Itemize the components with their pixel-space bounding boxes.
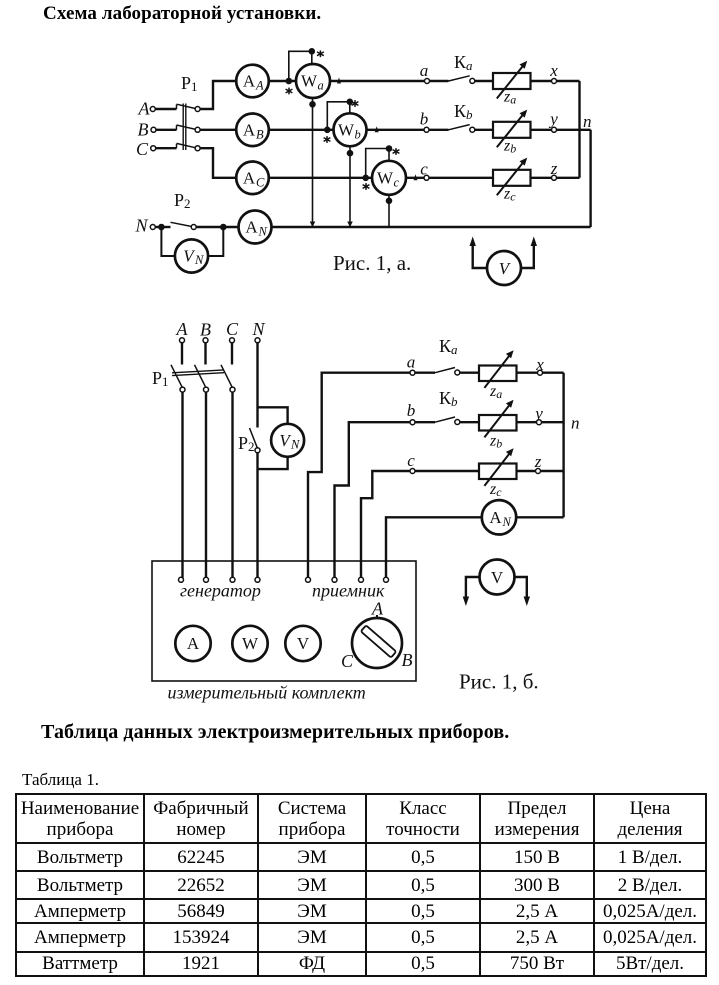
svg-text:B: B <box>200 320 211 340</box>
node C <box>136 139 156 159</box>
node A <box>138 99 156 119</box>
node B <box>138 120 157 140</box>
wire <box>156 147 177 149</box>
junction <box>287 79 291 83</box>
svg-text:b: b <box>355 127 361 141</box>
node b <box>420 110 429 133</box>
node A2 <box>176 319 189 343</box>
wire <box>540 470 563 472</box>
svg-text:zb: zb <box>503 137 516 155</box>
wire <box>415 421 435 423</box>
svg-text:b: b <box>420 110 429 129</box>
svg-text:N: N <box>502 515 512 529</box>
ammeter A_A <box>236 65 269 98</box>
svg-text:А: А <box>489 508 502 527</box>
switch K_a2 <box>435 336 460 375</box>
meter W <box>232 626 267 661</box>
wattmeter W_c voltage lead <box>363 146 400 190</box>
svg-text:C: C <box>341 651 354 671</box>
svg-text:W: W <box>377 168 394 187</box>
svg-text:А: А <box>243 120 256 139</box>
svg-text:Кa: Кa <box>454 52 473 73</box>
junction <box>364 176 368 180</box>
voltmeter V portable <box>470 237 538 286</box>
wire <box>181 392 183 578</box>
wire N feed <box>386 517 482 578</box>
svg-text:C: C <box>226 319 239 339</box>
svg-text:B: B <box>138 120 149 140</box>
switch P1b pole B <box>195 365 209 392</box>
bus x-y-z <box>578 81 580 178</box>
svg-text:генератор: генератор <box>180 581 261 601</box>
svg-text:N: N <box>290 437 300 451</box>
svg-text:W: W <box>301 72 318 91</box>
wire <box>330 80 425 82</box>
meter V <box>285 626 320 661</box>
wire a feed <box>308 373 410 578</box>
svg-text:x: x <box>549 61 558 80</box>
wire c feed <box>361 471 410 578</box>
wire <box>256 343 258 428</box>
wire <box>517 372 538 374</box>
svg-text:А: А <box>187 634 200 653</box>
terminal <box>230 577 235 582</box>
wattmeter W_a <box>296 64 330 98</box>
terminal <box>204 577 209 582</box>
svg-text:zc: zc <box>503 185 516 203</box>
current arrow <box>337 78 341 84</box>
svg-text:C: C <box>256 175 265 189</box>
svg-text:c: c <box>394 175 400 189</box>
rheostat z_a <box>493 61 531 107</box>
svg-text:B: B <box>402 650 413 670</box>
wire <box>475 129 493 131</box>
wire <box>156 129 177 131</box>
wire <box>429 129 449 131</box>
wattmeter W_c <box>372 161 406 195</box>
current arrow <box>414 174 418 180</box>
switch P2 <box>161 190 196 230</box>
svg-text:y: y <box>548 110 558 129</box>
wire <box>200 148 236 178</box>
svg-text:V: V <box>297 634 310 653</box>
svg-text:N: N <box>194 253 204 267</box>
svg-text:Р2: Р2 <box>174 190 191 211</box>
terminal <box>179 577 184 582</box>
switch P2b <box>238 428 260 454</box>
wire <box>531 129 552 131</box>
wire b feed <box>335 422 411 578</box>
wire <box>460 421 479 423</box>
wire <box>517 421 537 423</box>
wire <box>196 226 239 228</box>
wire <box>556 177 579 179</box>
wire <box>231 392 233 578</box>
ammeter A_N <box>239 211 272 244</box>
svg-text:A: A <box>138 99 151 119</box>
voltmeter V portable 2 <box>463 560 530 607</box>
terminal <box>332 577 337 582</box>
wire <box>516 516 564 518</box>
svg-text:c: c <box>407 451 415 470</box>
switch P1b pole C <box>221 365 235 392</box>
node B2 <box>200 320 211 343</box>
wattmeter W_b voltage lead <box>324 100 359 143</box>
svg-text:B: B <box>256 127 264 141</box>
svg-text:za: za <box>489 383 502 401</box>
svg-text:V: V <box>491 568 504 587</box>
ammeter A_N2 <box>482 500 516 534</box>
svg-text:A: A <box>371 599 384 619</box>
bus xyz 2 <box>562 373 564 518</box>
wire to neutral <box>589 130 591 227</box>
svg-text:А: А <box>245 218 258 237</box>
svg-text:N: N <box>258 225 268 239</box>
wire <box>531 177 552 179</box>
junction <box>325 128 329 132</box>
svg-text:Кa: Кa <box>439 336 458 357</box>
junction <box>159 225 163 229</box>
svg-text:a: a <box>407 353 416 372</box>
wire <box>205 392 207 578</box>
svg-text:a: a <box>420 61 429 80</box>
voltmeter V_N branch <box>161 227 223 273</box>
node N2 <box>251 319 265 343</box>
wire <box>200 81 236 109</box>
wire <box>460 372 479 374</box>
wire <box>556 80 579 82</box>
wire <box>155 226 163 228</box>
node y2 <box>533 404 543 425</box>
svg-text:N: N <box>134 216 148 236</box>
meter A <box>175 626 210 661</box>
wire <box>231 343 233 365</box>
svg-text:А: А <box>243 168 256 187</box>
wire <box>556 129 590 131</box>
terminal <box>384 577 389 582</box>
wire <box>415 372 435 374</box>
node c <box>420 160 429 181</box>
svg-text:zb: zb <box>489 433 502 451</box>
svg-text:W: W <box>242 634 259 653</box>
wire <box>475 80 493 82</box>
svg-text:a: a <box>318 79 324 93</box>
switch P1 tie bar <box>183 104 186 151</box>
svg-text:W: W <box>338 120 355 139</box>
svg-text:N: N <box>251 319 265 339</box>
wire <box>155 108 176 110</box>
wattmeter W_b <box>334 113 367 146</box>
node N <box>134 216 155 236</box>
wire <box>429 177 493 179</box>
wire <box>406 177 424 179</box>
svg-text:n: n <box>571 414 580 433</box>
svg-text:za: za <box>503 89 516 107</box>
svg-text:b: b <box>407 401 416 420</box>
switch P1b tie bar <box>172 370 224 376</box>
rheostat z_a2 <box>479 350 517 401</box>
wire <box>367 129 425 131</box>
node x2 <box>535 355 544 375</box>
svg-text:zc: zc <box>489 481 502 499</box>
node z <box>550 159 558 180</box>
wire <box>517 470 536 472</box>
node C2 <box>226 319 239 343</box>
svg-text:Рис. 1, б.: Рис. 1, б. <box>459 670 539 694</box>
node c2 <box>407 451 415 474</box>
junction <box>221 225 225 229</box>
switch P1 pole B <box>177 125 201 132</box>
svg-text:измерительный комплект: измерительный комплект <box>168 683 366 703</box>
svg-text:A: A <box>176 319 189 339</box>
wire <box>542 372 563 374</box>
wire <box>204 343 206 365</box>
wattmeter W_b return wire <box>347 146 353 227</box>
svg-text:Р1: Р1 <box>152 368 169 389</box>
svg-text:V: V <box>499 259 512 278</box>
terminal <box>255 577 260 582</box>
rheostat z_b <box>493 110 531 156</box>
switch P1 pole A <box>177 104 201 111</box>
rheostat z_c2 <box>479 448 517 499</box>
rheostat z_b2 <box>479 400 517 451</box>
wattmeter W_a voltage lead <box>286 49 324 94</box>
switch K_b <box>449 101 475 132</box>
svg-text:C: C <box>136 139 149 159</box>
svg-text:Кb: Кb <box>439 388 458 409</box>
ammeter A_B <box>236 114 269 147</box>
wire <box>200 129 236 131</box>
wire <box>181 343 183 365</box>
wire <box>269 129 334 131</box>
svg-text:Р1: Р1 <box>181 73 198 94</box>
wire <box>541 421 563 423</box>
rheostat z_c <box>493 158 531 204</box>
node b2 <box>407 401 416 425</box>
wire <box>269 80 296 82</box>
phase selector <box>341 599 413 672</box>
switch K_a <box>449 52 475 83</box>
neutral bus wire <box>272 226 591 228</box>
ammeter A_C <box>236 162 269 195</box>
terminal <box>359 577 364 582</box>
wire <box>269 177 372 179</box>
voltmeter V_N branch 2 <box>258 407 305 469</box>
wire <box>429 80 448 82</box>
switch K_b2 <box>435 388 460 425</box>
svg-text:А: А <box>243 72 256 91</box>
wire <box>415 470 479 472</box>
node y <box>548 110 558 133</box>
terminal <box>306 577 311 582</box>
wire <box>531 80 552 82</box>
wattmeter W_c return wire <box>387 195 391 227</box>
node z2 <box>534 452 542 474</box>
svg-text:n: n <box>583 112 592 131</box>
node a <box>420 61 430 84</box>
current arrow <box>375 126 379 132</box>
svg-text:Кb: Кb <box>454 101 473 122</box>
svg-text:A: A <box>255 79 264 93</box>
wattmeter W_a return wire <box>310 98 316 227</box>
wire <box>256 453 258 578</box>
measuring set box <box>152 561 416 681</box>
node a2 <box>407 353 416 376</box>
svg-text:приемник: приемник <box>312 581 385 601</box>
switch P1 pole C <box>177 143 201 150</box>
switch P1b pole A <box>171 365 185 392</box>
node x <box>549 61 558 84</box>
svg-text:Рис. 1, а.: Рис. 1, а. <box>333 251 411 275</box>
